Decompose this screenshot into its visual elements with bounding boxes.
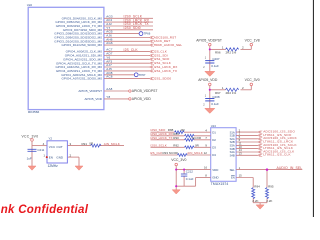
svg-text:APIO5_VDDPST: APIO5_VDDPST — [196, 38, 222, 42]
svg-text:NC/0R: NC/0R — [192, 136, 202, 140]
svg-text:I2S0_SDI0: I2S0_SDI0 — [124, 26, 141, 30]
svg-text:I2S0_SCLK: I2S0_SCLK — [151, 143, 167, 147]
svg-text:TP67: TP67 — [139, 73, 146, 77]
svg-text:13: 13 — [239, 152, 243, 156]
svg-text:GND: GND — [56, 155, 64, 159]
svg-text:R91: R91 — [82, 142, 88, 146]
svg-text:AIN_MCLK: AIN_MCLK — [187, 151, 203, 155]
svg-text:Y2: Y2 — [48, 137, 52, 141]
svg-text:D4: D4 — [212, 153, 216, 157]
svg-text:0.1uF: 0.1uF — [186, 177, 194, 181]
svg-text:U2d: U2d — [27, 3, 33, 7]
svg-text:APIO5_VDD: APIO5_VDD — [132, 97, 152, 101]
svg-text:SEL: SEL — [230, 168, 236, 172]
svg-text:nk Confidential: nk Confidential — [1, 204, 89, 216]
svg-text:VCC_3V0: VCC_3V0 — [22, 135, 39, 139]
svg-text:S2B: S2B — [230, 140, 235, 144]
svg-text:U13: U13 — [211, 124, 217, 128]
svg-text:VCC_1V8: VCC_1V8 — [245, 38, 260, 42]
svg-text:S1B: S1B — [230, 134, 235, 138]
svg-text:HDMI_AUDIO_SEL: HDMI_AUDIO_SEL — [154, 43, 183, 47]
svg-text:EN: EN — [231, 176, 235, 180]
svg-text:S4B: S4B — [230, 154, 235, 158]
svg-text:16: 16 — [204, 166, 208, 170]
svg-text:AA8: AA8 — [106, 87, 112, 91]
svg-text:TP66: TP66 — [144, 32, 151, 36]
svg-text:I2S0_LRCK_TX: I2S0_LRCK_TX — [151, 136, 173, 140]
svg-text:AG6: AG6 — [106, 41, 113, 45]
svg-text:I2S_CLK: I2S_CLK — [124, 48, 139, 52]
svg-text:GND: GND — [212, 176, 218, 180]
svg-text:I2S_CLK: I2S_CLK — [150, 151, 162, 155]
svg-text:D1: D1 — [212, 130, 216, 134]
svg-text:12: 12 — [204, 151, 208, 155]
svg-text:D3: D3 — [212, 146, 216, 150]
svg-text:I2S1_SDO0: I2S1_SDO0 — [154, 77, 172, 81]
svg-text:R93: R93 — [163, 151, 169, 155]
svg-text:LT8611_I2S_CLK: LT8611_I2S_CLK — [263, 153, 291, 157]
svg-text:R90: R90 — [173, 136, 179, 140]
svg-text:APIO5_VDD: APIO5_VDD — [198, 78, 218, 82]
svg-text:I2S1_LRCK_TX: I2S1_LRCK_TX — [154, 69, 177, 73]
svg-text:C207: C207 — [212, 57, 220, 61]
svg-text:S3B: S3B — [230, 147, 235, 151]
svg-text:AC8: AC8 — [106, 75, 112, 79]
svg-text:TMUX1574: TMUX1574 — [211, 182, 229, 186]
svg-text:VCC_3V0: VCC_3V0 — [245, 78, 260, 82]
svg-text:R95: R95 — [268, 185, 274, 189]
svg-text:VDD: VDD — [212, 168, 218, 172]
svg-text:12MHz: 12MHz — [48, 164, 59, 168]
svg-text:1uF: 1uF — [27, 156, 32, 160]
svg-text:RK3566: RK3566 — [28, 110, 39, 114]
svg-text:2R2 1%: 2R2 1% — [226, 91, 237, 95]
svg-text:15: 15 — [239, 174, 243, 178]
svg-text:GPIO4_A07/I2S1_SDO0_M0: GPIO4_A07/I2S1_SDO0_M0 — [61, 77, 102, 81]
svg-text:Y8: Y8 — [106, 95, 110, 99]
svg-text:OUT: OUT — [56, 145, 63, 149]
svg-text:VCC: VCC — [49, 145, 56, 149]
svg-text:APIO5_VDD: APIO5_VDD — [84, 97, 102, 101]
svg-text:D2: D2 — [212, 138, 216, 142]
svg-text:C212: C212 — [186, 170, 194, 174]
svg-text:2.2K: 2.2K — [266, 199, 272, 203]
svg-text:0.1uF: 0.1uF — [211, 102, 219, 106]
svg-text:AUDIO_IN_SEL: AUDIO_IN_SEL — [276, 166, 302, 170]
svg-text:APIO5_VDDPST: APIO5_VDDPST — [132, 89, 158, 93]
svg-text:C208: C208 — [212, 95, 220, 99]
svg-text:VCC_3V0: VCC_3V0 — [171, 158, 186, 162]
svg-text:NC/0R: NC/0R — [169, 151, 179, 155]
svg-text:EN: EN — [49, 155, 53, 159]
svg-text:R94: R94 — [254, 185, 260, 189]
svg-text:C211: C211 — [37, 148, 44, 152]
svg-text:APIO5_VDDPST: APIO5_VDDPST — [78, 89, 102, 93]
svg-text:GPIO3_D11/I2S0_SDO0_M0: GPIO3_D11/I2S0_SDO0_M0 — [61, 43, 102, 47]
svg-text:R96: R96 — [215, 51, 221, 55]
svg-text:2.2K: 2.2K — [252, 199, 258, 203]
svg-text:AIN_MCLK: AIN_MCLK — [104, 142, 120, 146]
svg-text:R92: R92 — [173, 143, 179, 147]
svg-text:2R2 1%: 2R2 1% — [226, 51, 237, 55]
svg-text:0.1uF: 0.1uF — [211, 64, 219, 68]
